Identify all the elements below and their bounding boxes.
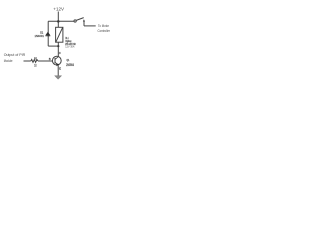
svg-text:Controller: Controller: [98, 29, 111, 33]
svg-text:+12V: +12V: [53, 7, 64, 13]
svg-text:1N4001: 1N4001: [35, 34, 45, 38]
svg-text:Output of PIR: Output of PIR: [4, 53, 26, 57]
svg-text:To Motor: To Motor: [98, 24, 110, 28]
svg-text:R1: R1: [34, 57, 38, 61]
svg-text:2N3904: 2N3904: [66, 63, 74, 67]
svg-text:12V 30A: 12V 30A: [65, 45, 74, 49]
svg-text:Q1: Q1: [67, 58, 70, 62]
svg-text:E: E: [59, 67, 61, 71]
svg-text:C: C: [59, 51, 61, 55]
svg-text:B: B: [49, 57, 51, 61]
svg-text:Module: Module: [4, 59, 13, 63]
